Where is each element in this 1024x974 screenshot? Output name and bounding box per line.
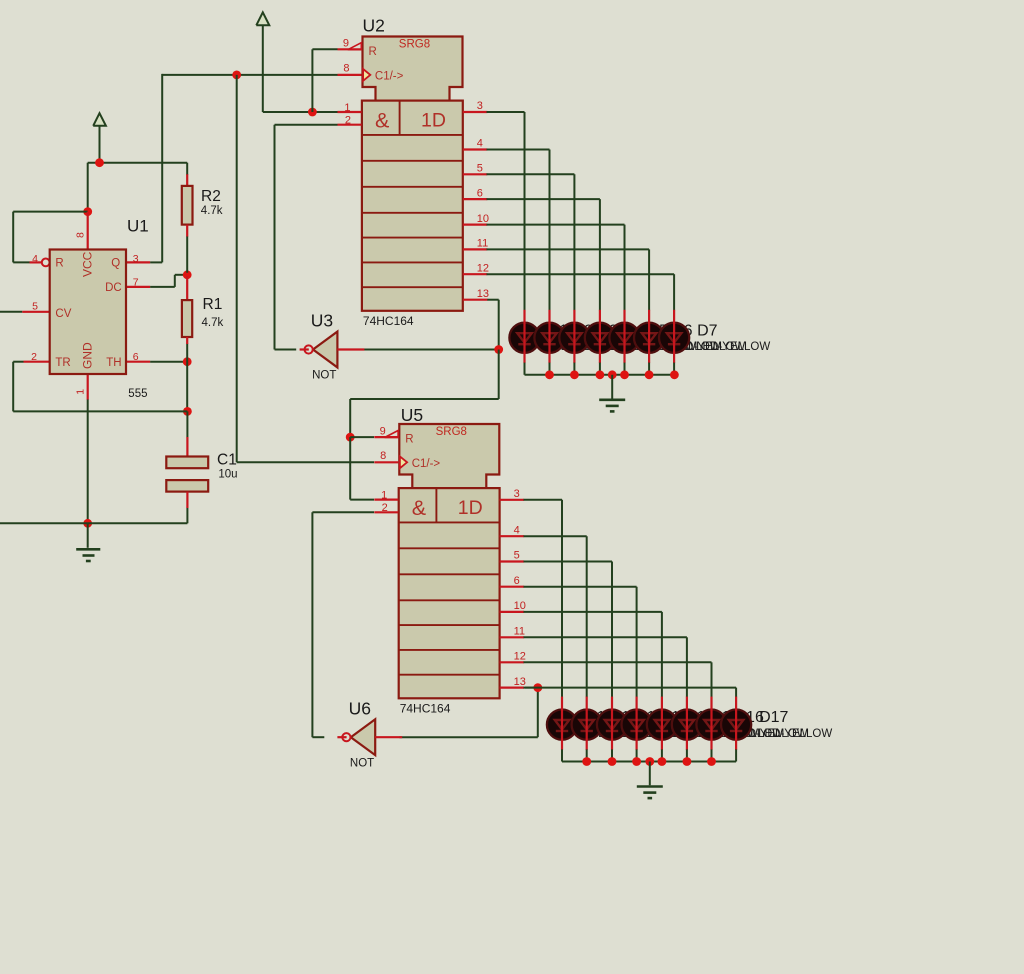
wire 555 CV pin5 to edge [0, 311, 22, 313]
wire output staircase [487, 249, 650, 310]
wire junction to C1 [186, 411, 188, 437]
svg-text:SRG8: SRG8 [399, 38, 430, 50]
clock arrow U5 [400, 456, 407, 468]
svg-text:74HC164: 74HC164 [363, 314, 414, 328]
wire 555 Q pin3 to riser [150, 261, 162, 263]
power symbol VCC (555 supply) [93, 113, 106, 163]
svg-text:1D: 1D [421, 110, 446, 132]
LED D3 [559, 323, 589, 353]
pin 9 stub U2 [338, 48, 362, 50]
svg-text:NOT: NOT [312, 370, 336, 382]
LED anode/cathode leads [548, 310, 550, 363]
clock arrow U2 [363, 69, 370, 81]
LED D11 [572, 710, 602, 740]
svg-text:C1/->: C1/-> [375, 71, 404, 83]
pin 10 stub U2 [463, 224, 488, 226]
wire ground tap [611, 375, 613, 399]
inverter U6 body [351, 719, 375, 755]
pin 9 marker triangle U5 [385, 431, 399, 438]
pin stub 555 pin4 R [30, 261, 42, 263]
svg-text:1: 1 [344, 102, 350, 114]
svg-text:CV: CV [55, 308, 71, 320]
resistor R1 body [182, 300, 192, 337]
svg-text:13: 13 [477, 288, 489, 300]
wire to U5 pin1 [350, 437, 374, 500]
svg-text:R: R [405, 434, 413, 446]
wire LED to rail [661, 749, 663, 761]
svg-text:4: 4 [477, 138, 483, 150]
LED anode/cathode leads [561, 697, 563, 750]
svg-text:9: 9 [343, 38, 349, 50]
wire 555 TH pin6 to R1 bottom [150, 361, 187, 363]
node junction rail [596, 370, 605, 379]
wire output staircase [524, 637, 687, 697]
pin 5 stub U2 [463, 173, 488, 175]
node junction VCC arrow [95, 158, 104, 167]
LED D2 [534, 323, 564, 353]
capacitor C1 plate top [166, 457, 208, 469]
LED D14 [647, 710, 677, 740]
svg-text:4.7k: 4.7k [202, 317, 224, 329]
svg-text:2: 2 [345, 115, 351, 127]
svg-text:4: 4 [514, 524, 520, 536]
svg-text:DC: DC [105, 282, 122, 294]
LED anode/cathode leads [523, 310, 525, 363]
node junction rail [683, 757, 692, 766]
IC U5 74HC164 register cell stack [399, 488, 500, 698]
svg-text:9: 9 [380, 425, 386, 437]
LED anode/cathode leads [735, 697, 737, 750]
svg-text:3: 3 [477, 100, 483, 112]
LED anode/cathode leads [599, 310, 601, 363]
capacitor C1 stub bottom [186, 492, 188, 508]
svg-text:13: 13 [514, 676, 526, 688]
svg-text:NOT: NOT [350, 757, 374, 769]
pin stub 555 pin2 TR [24, 361, 50, 363]
pin 4 stub U2 [463, 148, 488, 150]
LED D15 [672, 710, 702, 740]
resistor R2 body [182, 186, 193, 225]
pin 3 stub U2 [463, 111, 488, 113]
wire output staircase [524, 662, 712, 697]
node junction pin9 branch [308, 108, 317, 117]
pin stub 555 pin3 Q [126, 261, 150, 263]
ground symbol LED rail [599, 400, 625, 412]
pin 2 stub U5 [374, 511, 398, 513]
node junction clock branch [232, 71, 241, 80]
svg-text:2: 2 [382, 502, 388, 514]
ground symbol LED rail [637, 787, 663, 799]
pin 9 marker triangle U2 [348, 43, 362, 50]
pin stub 555 pin8 VCC [87, 212, 89, 250]
wire U5 pin13 to U6 input [399, 688, 537, 738]
wire C1 bottom to ground rail [186, 508, 188, 524]
wire LED to rail [611, 749, 613, 761]
pin 2 stub U2 [338, 124, 362, 126]
IC U5 74HC164 control block [399, 424, 499, 488]
wire LED to rail [673, 363, 675, 375]
svg-text:6: 6 [133, 351, 139, 363]
pin 12 stub U5 [500, 661, 524, 663]
svg-text:3: 3 [514, 488, 520, 500]
svg-text:8: 8 [380, 450, 386, 462]
IC U2 74HC164 register cell stack [362, 101, 463, 311]
wire U3 output to U2 pin2 [275, 125, 338, 350]
pin 5 stub U5 [500, 560, 524, 562]
wire LED to rail [524, 363, 526, 375]
wire LED to rail [624, 363, 626, 375]
svg-text:12: 12 [514, 651, 526, 663]
svg-text:U1: U1 [127, 217, 149, 236]
pin stub 555 pin5 CV [22, 311, 49, 313]
node junction rail end [670, 370, 679, 379]
node junction rail [545, 370, 554, 379]
svg-text:LED-YELLOW: LED-YELLOW [758, 728, 832, 740]
wire LED to rail [599, 363, 601, 375]
pin 6 stub U5 [500, 586, 524, 588]
svg-text:D7: D7 [697, 322, 718, 339]
LED D12 [597, 710, 627, 740]
node junction rail [608, 370, 617, 379]
svg-text:1D: 1D [458, 497, 483, 519]
ground symbol (555/C1) [76, 523, 100, 561]
svg-text:11: 11 [514, 626, 525, 638]
inverter U6 input stub [375, 736, 402, 738]
wire output staircase [487, 225, 625, 311]
wire LED to rail [686, 749, 688, 761]
svg-text:11: 11 [477, 238, 488, 250]
LED anode/cathode leads [673, 310, 675, 363]
node junction rail [645, 370, 654, 379]
wire LED to rail [549, 363, 551, 375]
svg-text:U2: U2 [363, 16, 385, 36]
svg-text:LED-YELLOW: LED-YELLOW [696, 341, 770, 353]
svg-text:10u: 10u [218, 469, 237, 481]
wire R2 bottom to junction [186, 236, 188, 273]
svg-text:R2: R2 [201, 188, 221, 205]
power symbol VCC (top, feeds U2) [256, 12, 269, 112]
svg-text:4.7k: 4.7k [201, 205, 223, 217]
pin 3 stub U5 [500, 499, 524, 501]
wire LED to rail [573, 363, 575, 375]
svg-text:&: & [412, 496, 426, 520]
pin 13 stub U5 [500, 686, 524, 688]
IC U1 555 timer body [50, 250, 126, 375]
svg-text:1: 1 [74, 389, 86, 395]
svg-text:4: 4 [32, 253, 38, 265]
resistor R1 stub bottom [186, 337, 188, 344]
wire VCC to U2 pin1 [263, 111, 338, 113]
node junction rail [707, 757, 716, 766]
svg-text:7: 7 [133, 276, 139, 288]
wire U2 pin13 feedback to U3 input [364, 300, 499, 350]
LED D17 [721, 710, 751, 740]
svg-text:74HC164: 74HC164 [400, 702, 451, 716]
wire clock branch down to U5 [237, 75, 374, 462]
wire VCC down to pin8 node [87, 163, 89, 212]
wire R1 bottom junction down [186, 344, 188, 412]
svg-text:R: R [369, 46, 377, 58]
wire LED to rail [711, 749, 713, 761]
wire output staircase [487, 274, 675, 310]
node junction R1 top [183, 270, 192, 279]
svg-text:C1/->: C1/-> [412, 458, 441, 470]
LED D10 [547, 710, 577, 740]
wire 555 DC pin7 to R1 top [150, 275, 187, 287]
svg-text:TH: TH [106, 357, 121, 369]
svg-text:U3: U3 [311, 311, 333, 331]
svg-text:GND: GND [80, 342, 94, 369]
LED anode/cathode leads [710, 697, 712, 750]
pin 11 stub U2 [463, 248, 488, 250]
node junction U5 pin9 [346, 433, 355, 442]
LED anode/cathode leads [661, 697, 663, 750]
pin 12 stub U2 [463, 273, 488, 275]
wire LED to rail [586, 749, 588, 761]
LED anode/cathode leads [635, 697, 637, 750]
pin 10 stub U5 [500, 611, 524, 613]
pin 1 stub U5 [374, 499, 398, 501]
LED D1 [509, 323, 539, 353]
svg-text:U6: U6 [349, 698, 371, 718]
inverter U6 output bubble [342, 733, 350, 741]
node junction ground rail [83, 519, 92, 528]
resistor R2 stub bottom [186, 225, 188, 237]
LED anode/cathode leads [648, 310, 650, 363]
wire cathode rail [562, 761, 736, 763]
pin 9 stub U5 [374, 436, 398, 438]
inverter U6 output stub [337, 736, 346, 738]
wire output staircase [487, 150, 550, 311]
svg-text:SRG8: SRG8 [436, 426, 467, 438]
wire Q(555) to U2 clock - horizontal top [162, 74, 337, 76]
node junction pin8/reset [83, 207, 92, 216]
pin 11 stub U5 [500, 636, 524, 638]
node junction rail [608, 757, 617, 766]
wire Q vertical riser x162 [161, 74, 163, 263]
svg-text:R1: R1 [203, 296, 223, 313]
pin 8 stub U2 [338, 74, 362, 76]
wire feedback down to U5 pin9 [350, 350, 499, 438]
LED anode/cathode leads [623, 310, 625, 363]
LED anode/cathode leads [573, 310, 575, 363]
svg-text:3: 3 [133, 253, 139, 265]
pin 4 stub U5 [500, 535, 524, 537]
pin 6 stub U2 [463, 198, 488, 200]
svg-text:2: 2 [31, 351, 37, 363]
wire LED to rail [561, 749, 563, 761]
wire LED to rail [636, 749, 638, 761]
LED anode/cathode leads [586, 697, 588, 750]
capacitor C1 plate bottom [166, 480, 208, 492]
wire LED to rail [648, 363, 650, 375]
svg-text:TR: TR [55, 357, 70, 369]
svg-text:R: R [55, 257, 63, 269]
resistor R1 stub top [186, 276, 188, 301]
node junction rail [620, 370, 629, 379]
inverter U3 output stub [300, 348, 309, 350]
node junction C1 top [183, 407, 192, 416]
wire output staircase [524, 562, 613, 698]
svg-text:VCC: VCC [80, 251, 94, 277]
inverter U3 output bubble [305, 345, 313, 353]
svg-text:5: 5 [32, 300, 38, 312]
svg-text:U5: U5 [401, 405, 423, 425]
svg-text:1: 1 [381, 489, 387, 501]
LED D5 [609, 323, 639, 353]
svg-text:&: & [375, 109, 389, 133]
capacitor C1 stub top [186, 437, 188, 457]
svg-text:C1: C1 [217, 452, 237, 469]
svg-text:12: 12 [477, 262, 489, 274]
svg-text:8: 8 [343, 63, 349, 75]
wire output staircase [487, 174, 575, 310]
node junction rail [645, 757, 654, 766]
inverter U3 body [313, 332, 337, 368]
wire output staircase [487, 112, 525, 310]
svg-text:555: 555 [128, 388, 147, 400]
svg-text:5: 5 [514, 550, 520, 562]
wire output staircase [524, 612, 662, 697]
wire ground rail bottom-left [0, 522, 187, 524]
svg-text:6: 6 [477, 187, 483, 199]
wire output staircase [524, 688, 737, 698]
wire loop to 555 pin4 reset [13, 212, 88, 263]
wire output staircase [524, 587, 637, 697]
svg-text:D17: D17 [759, 709, 788, 726]
svg-text:10: 10 [514, 600, 526, 612]
LED D4 [585, 323, 615, 353]
wire U6 output to U5 pin2 [312, 512, 374, 737]
node junction rail [658, 757, 667, 766]
wire VCC rail to R2 [88, 162, 188, 164]
wire output staircase [524, 500, 563, 697]
resistor R2 stub top [186, 163, 188, 187]
LED anode/cathode leads [611, 697, 613, 750]
wire output staircase [524, 536, 587, 697]
svg-text:5: 5 [477, 163, 483, 175]
LED D13 [622, 710, 652, 740]
wire 555 TR pin2 loop [13, 362, 23, 412]
svg-text:10: 10 [477, 213, 489, 225]
wire ground tap [649, 762, 651, 786]
LED D16 [696, 710, 726, 740]
pin 8 stub U5 [374, 461, 398, 463]
wire output staircase [487, 199, 600, 310]
wire cathode rail [525, 374, 675, 376]
pin 13 stub U2 [463, 299, 488, 301]
wire 555 GND pin1 down [87, 399, 89, 523]
LED anode/cathode leads [686, 697, 688, 750]
svg-text:6: 6 [514, 575, 520, 587]
node junction U3 input [494, 345, 503, 354]
IC U2 74HC164 control block [363, 37, 463, 101]
svg-text:8: 8 [74, 232, 86, 238]
LED D7 [659, 323, 689, 353]
wire TR loop horizontal [13, 410, 187, 412]
node junction U6 input [533, 683, 542, 692]
pin bubble 555 pin4 [42, 259, 50, 267]
pin stub 555 pin6 TH [126, 361, 150, 363]
wire branch up to U2 pin9 (R) [312, 49, 337, 112]
inverter U3 input stub [337, 348, 364, 350]
node junction R1 bottom [183, 357, 192, 366]
node junction rail [632, 757, 641, 766]
pin stub 555 pin1 GND [87, 374, 89, 400]
node junction rail [570, 370, 579, 379]
node junction rail [582, 757, 591, 766]
LED D6 [634, 323, 664, 353]
wire LED to rail [735, 749, 737, 761]
svg-text:Q: Q [111, 257, 120, 269]
pin 1 stub U2 [338, 111, 362, 113]
pin stub 555 pin7 DC [126, 286, 150, 288]
